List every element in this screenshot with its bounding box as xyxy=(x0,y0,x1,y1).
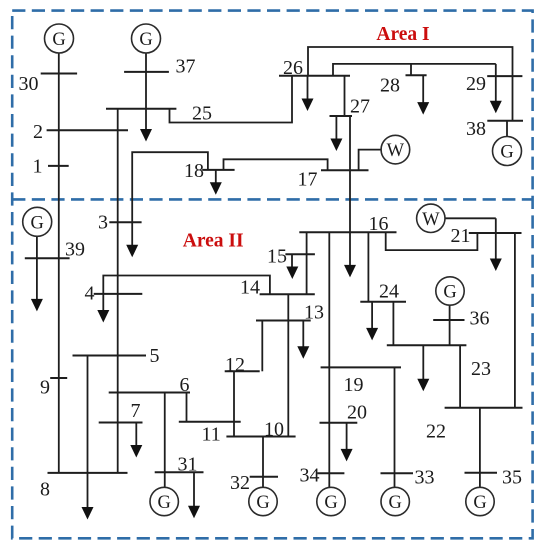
svg-text:16: 16 xyxy=(369,213,389,235)
wire 21-22 xyxy=(514,233,516,408)
load arrow bus 18 xyxy=(210,170,222,195)
bus 8 xyxy=(48,472,128,474)
load arrow bus 28 xyxy=(417,75,429,114)
svg-text:37: 37 xyxy=(176,56,196,78)
wire 13-12 xyxy=(261,321,263,372)
svg-text:18: 18 xyxy=(184,160,204,182)
svg-text:19: 19 xyxy=(344,374,364,396)
svg-text:21: 21 xyxy=(451,225,471,247)
wire 24-23 xyxy=(392,302,394,346)
generator G30 xyxy=(45,24,74,53)
generator G34 xyxy=(317,487,345,515)
svg-text:36: 36 xyxy=(470,308,490,330)
bus 3 xyxy=(109,221,141,223)
bus 24 xyxy=(360,301,406,303)
svg-text:25: 25 xyxy=(192,103,212,125)
bus 38 xyxy=(487,120,523,122)
wire 26-27 xyxy=(344,76,346,116)
svg-text:G: G xyxy=(256,493,269,513)
svg-text:15: 15 xyxy=(267,246,287,268)
load arrow bus 29 xyxy=(490,64,502,113)
svg-text:5: 5 xyxy=(150,345,160,367)
svg-text:17: 17 xyxy=(298,169,318,191)
bus 33 xyxy=(381,472,414,474)
svg-text:35: 35 xyxy=(502,467,522,489)
svg-text:33: 33 xyxy=(415,467,435,489)
svg-text:G: G xyxy=(31,213,44,233)
bus 25 xyxy=(106,108,176,110)
bus 15 xyxy=(285,253,315,255)
svg-text:39: 39 xyxy=(65,239,85,261)
generator G32 xyxy=(249,487,277,515)
wire 6-31 xyxy=(164,393,166,488)
svg-text:26: 26 xyxy=(283,57,303,79)
load arrow bus 4 xyxy=(97,294,109,323)
generator G39 xyxy=(23,207,52,236)
wire 10-32 xyxy=(262,437,264,488)
svg-text:14: 14 xyxy=(240,277,260,299)
svg-text:27: 27 xyxy=(350,96,370,118)
generator G36 xyxy=(436,277,464,305)
load arrow bus 3 xyxy=(126,222,138,257)
bus 1 xyxy=(48,165,69,167)
load arrow bus 39 xyxy=(31,236,43,311)
bus 32 xyxy=(250,476,278,478)
wire 26-28-29 xyxy=(333,64,496,76)
wire 14-13-10 xyxy=(287,294,289,436)
wire 23-22 xyxy=(459,345,461,407)
svg-text:12: 12 xyxy=(225,354,245,376)
svg-text:Area II: Area II xyxy=(183,231,244,252)
svg-text:13: 13 xyxy=(304,302,324,324)
svg-text:8: 8 xyxy=(40,479,50,501)
load arrow bus 13 xyxy=(297,321,309,359)
svg-text:G: G xyxy=(389,493,402,513)
bus 28 xyxy=(406,74,427,76)
load arrow bus 7 xyxy=(130,423,142,458)
svg-text:W: W xyxy=(387,141,405,161)
svg-text:24: 24 xyxy=(379,281,399,303)
bus 16 xyxy=(299,231,396,233)
generator G37 xyxy=(132,24,161,53)
bus 22 xyxy=(445,407,523,409)
bus 19 xyxy=(321,366,401,368)
svg-text:G: G xyxy=(158,493,171,513)
area divider dashed line xyxy=(12,198,532,201)
bus 29 xyxy=(487,75,522,77)
bus 31 xyxy=(155,471,204,473)
wire 22-35 xyxy=(479,408,481,488)
svg-text:G: G xyxy=(324,493,337,513)
wire 16-19-20-34 xyxy=(328,232,330,487)
bus 18 xyxy=(202,169,234,171)
svg-text:29: 29 xyxy=(466,73,486,95)
svg-text:23: 23 xyxy=(471,358,491,380)
wire 25-26 xyxy=(170,76,293,123)
svg-text:G: G xyxy=(52,30,65,50)
wire W21 connection xyxy=(445,217,496,219)
wire 25-2-3-4-5-6-7-8 vertical chain xyxy=(117,109,119,473)
svg-text:32: 32 xyxy=(230,472,250,494)
svg-text:3: 3 xyxy=(98,212,108,234)
bus 26 xyxy=(279,75,350,77)
wire 12-11-10 xyxy=(233,371,235,436)
bus 27 xyxy=(330,115,353,117)
bus 14 xyxy=(260,293,315,295)
bus 10 xyxy=(226,436,295,438)
wire 16-21 xyxy=(386,232,478,250)
bus 39 xyxy=(25,257,70,259)
bus 11 xyxy=(179,421,241,423)
wire 28 drop xyxy=(410,64,412,75)
load arrow bus 25 (from G37 stem) xyxy=(140,53,152,142)
svg-text:7: 7 xyxy=(131,400,141,422)
bus 36 xyxy=(433,319,464,321)
load arrow bus 26 xyxy=(302,76,314,111)
svg-text:9: 9 xyxy=(40,377,50,399)
svg-text:30: 30 xyxy=(19,73,39,95)
bus 6 xyxy=(109,392,190,394)
bus 5 xyxy=(73,355,147,357)
bus 13 xyxy=(256,320,311,322)
wire 4-14 xyxy=(103,276,270,295)
load arrow bus 8 (and line 5-8) xyxy=(82,356,94,520)
svg-text:G: G xyxy=(500,143,513,163)
wire 6-11 xyxy=(186,393,188,422)
wire 17-18 xyxy=(224,159,328,170)
bus 35 xyxy=(465,472,498,474)
svg-text:G: G xyxy=(139,30,152,50)
svg-text:6: 6 xyxy=(180,374,190,396)
svg-text:2: 2 xyxy=(33,121,43,143)
load arrow bus 16 xyxy=(344,232,356,277)
load arrow bus 23 xyxy=(417,345,429,391)
load arrow bus 21 (from W21 wire) xyxy=(490,218,502,271)
wire 38-G stem xyxy=(506,121,508,137)
bus 12 xyxy=(225,370,260,372)
svg-text:Area I: Area I xyxy=(376,24,429,45)
generator G31 xyxy=(150,487,178,515)
wire 3-18 xyxy=(132,152,208,222)
svg-text:22: 22 xyxy=(426,421,446,443)
wire 27-17-16 xyxy=(349,116,351,232)
wind W21 xyxy=(417,204,445,232)
generator G33 xyxy=(381,487,409,515)
load arrow bus 15 xyxy=(286,254,298,279)
bus 34 xyxy=(317,472,344,474)
svg-text:38: 38 xyxy=(466,118,486,140)
bus 20 xyxy=(320,422,358,424)
svg-text:20: 20 xyxy=(347,402,367,424)
load arrow bus 20 xyxy=(341,423,353,462)
wire 16-15-14 xyxy=(306,232,308,294)
generator G38 xyxy=(493,137,522,166)
load arrow bus 31 xyxy=(188,472,200,518)
svg-text:W: W xyxy=(422,210,440,230)
wind W17 xyxy=(381,135,410,164)
generator G35 xyxy=(466,487,494,515)
svg-text:G: G xyxy=(473,493,486,513)
wire 19-33 xyxy=(394,367,396,487)
bus 23 xyxy=(387,344,467,346)
wire 16-24 xyxy=(367,232,369,302)
svg-text:10: 10 xyxy=(264,419,284,441)
bus 21 xyxy=(469,232,522,234)
bus 9 xyxy=(50,377,67,379)
svg-text:4: 4 xyxy=(85,283,95,305)
wire 36-23 stem xyxy=(449,305,451,345)
svg-text:31: 31 xyxy=(178,454,198,476)
svg-text:1: 1 xyxy=(33,156,43,178)
wire 30-2-1-39-9-8 main left vertical xyxy=(58,53,60,473)
load arrow bus 27 xyxy=(330,116,342,151)
bus 7 xyxy=(99,422,143,424)
load arrow bus 24 xyxy=(366,302,378,341)
bus 17 xyxy=(321,169,369,171)
bus 30 xyxy=(41,73,77,75)
bus 4 xyxy=(94,293,143,295)
bus 2 xyxy=(47,129,128,131)
svg-text:11: 11 xyxy=(202,424,221,446)
svg-text:34: 34 xyxy=(300,465,320,487)
wire 26-29-38 xyxy=(308,47,513,121)
wire W17 connection xyxy=(359,150,382,171)
svg-text:G: G xyxy=(443,283,456,303)
bus 37 xyxy=(124,71,169,73)
svg-text:28: 28 xyxy=(380,75,400,97)
